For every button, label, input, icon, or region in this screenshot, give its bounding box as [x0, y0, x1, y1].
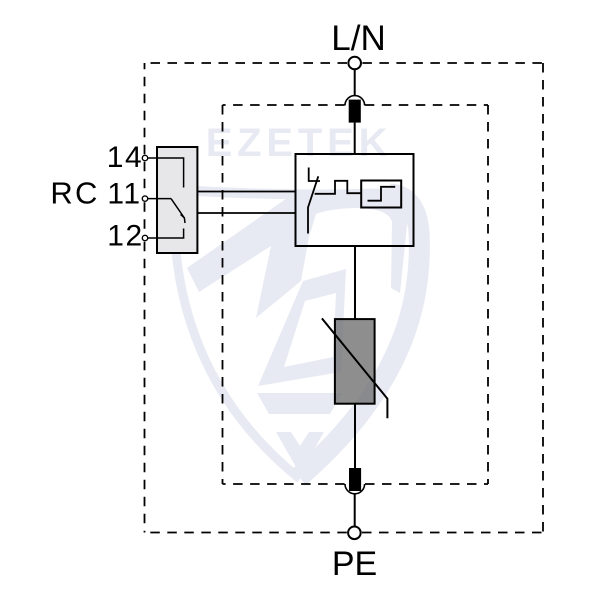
wire: bottom connector to PE terminal [354, 494, 356, 527]
terminal 12 [142, 235, 147, 240]
terminal 14 [142, 155, 147, 160]
inner module boundary: left, right, and split top/bottom edges [223, 105, 489, 484]
wire: disconnector box to varistor [354, 246, 356, 319]
wire: varistor to bottom connector [354, 404, 356, 468]
varistor diagonal stroke [322, 318, 388, 418]
terminal 11 [142, 196, 147, 201]
mechanical linkage (lower line) [197, 212, 295, 214]
remote contact block RC [157, 147, 197, 253]
outer enclosure boundary [145, 63, 544, 533]
svg-text:12: 12 [107, 220, 144, 253]
RC blade arrow barb [181, 215, 185, 219]
terminal L/N [348, 57, 361, 70]
RC common 11 lead [148, 198, 172, 200]
varistor body RU [335, 319, 375, 404]
plug-in disconnect contact (bottom) [345, 468, 365, 494]
svg-text:RC: RC [50, 176, 99, 211]
RC switch blade [171, 199, 185, 223]
watermark (decorative) [174, 121, 419, 479]
thermal element [315, 181, 362, 194]
svg-text:11: 11 [107, 178, 141, 211]
svg-text:14: 14 [107, 141, 144, 174]
trip unit step symbol [368, 187, 396, 201]
disconnector fixed contact [309, 168, 320, 182]
svg-text:L/N: L/N [331, 19, 385, 58]
wire: L/N terminal to top connector [354, 69, 356, 97]
RC contact 14 lead [148, 158, 184, 188]
plug-in disconnect contact (top) [345, 96, 365, 123]
trip unit box [361, 181, 401, 208]
thermal disconnector box F [296, 154, 414, 246]
disconnector switch blade [308, 176, 318, 233]
RC contact 12 lead [148, 229, 184, 239]
terminal PE [348, 527, 361, 540]
svg-text:PE: PE [332, 545, 377, 583]
svg-text:EZETEK: EZETEK [206, 121, 393, 165]
mechanical linkage (upper line) [197, 191, 295, 193]
wire: top connector to disconnector box [354, 123, 356, 154]
